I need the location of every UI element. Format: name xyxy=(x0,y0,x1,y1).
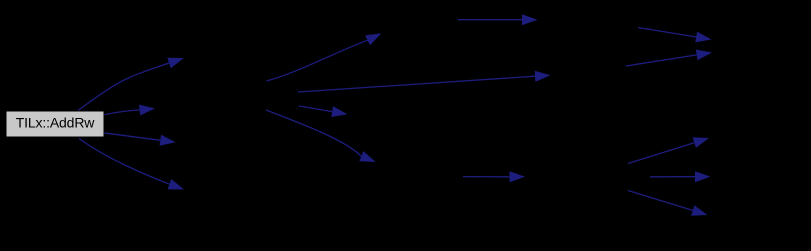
edge E9 node6 to node10 xyxy=(458,14,538,25)
edge E4 box to node5 (down-right curve) xyxy=(79,139,184,190)
edge E14 node13 to node15 xyxy=(650,171,711,182)
edge E8 node3 to node9 xyxy=(266,110,376,162)
edge E11 node7 to node11 xyxy=(626,50,712,67)
edge E13 node13 to node14 xyxy=(628,137,709,163)
node box TILx::AddRw xyxy=(6,111,104,137)
edge E1 box to node2 (up-right curve) xyxy=(78,58,184,111)
edge E5 node2 to node6 (up-right curve) xyxy=(267,33,382,81)
edge E12 node12 to node13 xyxy=(463,171,525,182)
svg-text:TILx::AddRw: TILx::AddRw xyxy=(16,115,96,131)
edge E6 node3 to node7 (long) xyxy=(298,71,551,92)
edge E3 box to node4 xyxy=(103,133,175,146)
edge E2 box to node3 xyxy=(103,105,155,116)
edge E7 node3 to node8 xyxy=(299,106,348,117)
edge E10 node10 to node11 xyxy=(638,28,712,43)
edge E15 node13 to node16 xyxy=(628,191,708,216)
